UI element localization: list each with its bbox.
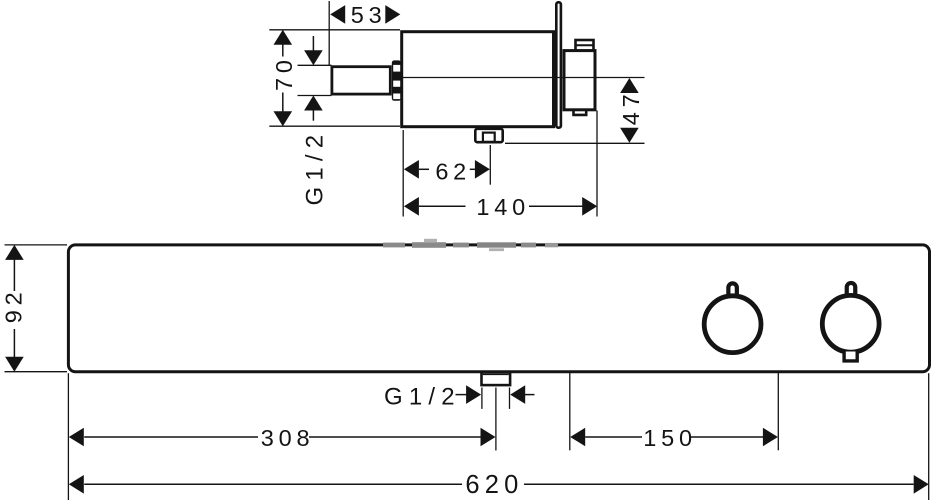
dimension labels [1, 2, 697, 499]
svg-text:53: 53 [351, 2, 387, 28]
dimension 70 [269, 29, 400, 31]
watermark remnants on bar top edge [383, 239, 558, 251]
dimension 62 [404, 160, 419, 179]
spout pipe [332, 67, 390, 94]
dimension 308 [69, 428, 84, 447]
dimension 92 [5, 244, 68, 246]
outlet nipple (front) [482, 373, 511, 386]
extension lines bottom view [67, 373, 69, 500]
wall plate [556, 2, 561, 127]
handle main body (side) [564, 51, 595, 110]
extension lines below body [402, 130, 404, 217]
handle knob 2 [822, 295, 879, 352]
svg-text:G1/2: G1/2 [384, 383, 461, 410]
svg-text:620: 620 [465, 471, 523, 499]
dimension 47 [505, 142, 645, 144]
handle bottom tab [574, 110, 587, 115]
handle top tab [576, 40, 594, 51]
outlet nipple (side) [475, 129, 502, 142]
svg-text:150: 150 [643, 425, 697, 451]
G1/2 leader arrows [456, 394, 467, 396]
valve body [402, 32, 554, 127]
dimension 620 [69, 475, 84, 494]
thread block [392, 60, 401, 100]
svg-text:92: 92 [1, 288, 27, 324]
dimension 150 [570, 428, 585, 447]
spout thread dimension G1/2 [298, 64, 332, 66]
svg-text:G1/2: G1/2 [302, 129, 329, 206]
body centerline / 47 top extension [403, 77, 645, 79]
handle knob 1 [704, 296, 761, 353]
svg-text:47: 47 [618, 90, 644, 126]
svg-text:70: 70 [271, 55, 297, 91]
dimension 53 [328, 1, 330, 65]
svg-text:62: 62 [435, 158, 471, 184]
dimension 140 [404, 197, 419, 216]
bar body [68, 245, 929, 372]
svg-text:308: 308 [261, 425, 315, 451]
svg-text:140: 140 [476, 194, 530, 220]
